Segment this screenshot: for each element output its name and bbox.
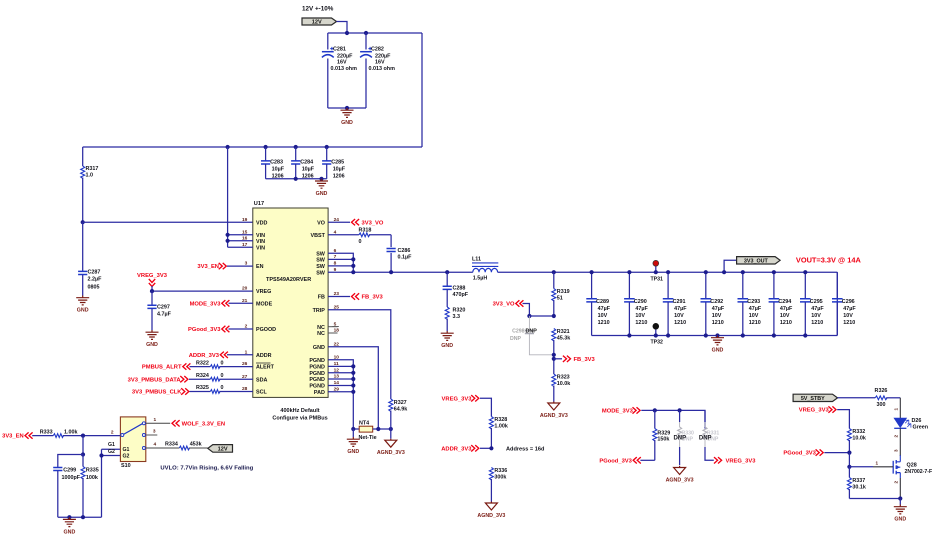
capacitor C281 [322,33,357,108]
node junction VREG/C297 [150,289,154,293]
resistor R335 [81,455,99,518]
net VREG_3V3 above C297 [137,273,168,287]
svg-text:ADDR: ADDR [256,353,272,359]
node junction divider top right [552,314,556,318]
pin 25 TRIP U17 right [313,304,340,314]
svg-text:3V3_PMBUS_DATA: 3V3_PMBUS_DATA [128,377,182,383]
resistor R328 [489,417,508,449]
pin 22 GND U17 right [313,341,339,351]
svg-text:VREG_3V3: VREG_3V3 [442,396,473,402]
svg-text:10.0k: 10.0k [557,381,571,387]
net PGood_3V3 at gate [783,449,823,456]
net 3V3_PMBUS_DATA [128,376,188,383]
svg-text:PAD: PAD [314,390,325,396]
pin 20 VREG U17 left [242,286,271,296]
resistor R322 [190,360,253,368]
svg-text:R320: R320 [453,308,466,314]
svg-text:2: 2 [111,429,114,435]
wire main 12V rail [83,146,422,148]
svg-text:PGOOD: PGOOD [256,327,276,333]
wire NT4 left [353,428,359,430]
ground GND Q28 [894,499,907,523]
svg-text:GND: GND [64,529,76,535]
svg-text:16V: 16V [337,59,347,65]
svg-text:1.0: 1.0 [86,173,94,179]
svg-text:TP31: TP31 [651,276,664,282]
svg-text:19: 19 [242,217,248,223]
capacitor C294 [769,270,793,338]
svg-text:47µF: 47µF [635,306,648,312]
net 3V3_EN at EN pin [197,263,226,270]
svg-text:C282: C282 [371,47,384,53]
svg-text:1210: 1210 [843,320,855,326]
wire NC pin5 stub [328,326,337,328]
svg-text:4: 4 [154,442,157,448]
net MODE_3V3 at R329 [602,407,640,414]
node junction R330 top [678,408,682,412]
wire VREG to R332 [837,410,849,429]
wire PGND bus [328,360,353,429]
svg-text:1000pF: 1000pF [62,475,81,481]
transistor Q28 2N7002-7-F [893,455,932,478]
svg-text:1210: 1210 [749,320,761,326]
svg-text:FB_3V3: FB_3V3 [362,295,384,301]
net PGood_3V3 at PGOOD pin [188,326,229,333]
capacitor C285 [322,147,346,180]
svg-text:10µF: 10µF [272,167,285,173]
svg-text:0: 0 [221,385,224,391]
wire input caps bottom [266,178,327,180]
svg-text:UVLO: 7.7Vin Rising, 6.6V Fall: UVLO: 7.7Vin Rising, 6.6V Falling [160,465,253,471]
svg-text:VIN: VIN [256,245,265,251]
svg-text:PGND: PGND [309,365,325,371]
net 3V3_VO at divider [493,300,524,307]
svg-text:0.1µF: 0.1µF [398,254,413,260]
svg-text:2: 2 [894,435,899,438]
svg-text:DNP: DNP [526,328,538,334]
svg-text:10V: 10V [811,313,821,319]
wire PGND pin y379.0 [328,377,355,381]
wire PGND pin y385.5 [328,383,355,387]
node junction R327-NT4 [389,427,393,431]
svg-text:PGND: PGND [309,377,325,383]
pin 10 PGND U17 right [309,354,339,364]
node junction C284 top [294,145,298,149]
svg-text:R337: R337 [852,478,865,484]
note 400kHz Default [272,408,327,422]
svg-text:470pF: 470pF [453,292,469,298]
note UVLO [160,465,253,471]
resistor R320 [445,307,465,331]
wire output bottom rail [592,335,838,337]
svg-text:10V: 10V [635,313,645,319]
resistor R336 [489,468,507,502]
svg-text:AGND_3V3: AGND_3V3 [477,513,505,519]
node junction C286 bottom [389,270,393,274]
svg-text:12V +-10%: 12V +-10% [302,6,334,13]
svg-text:GND: GND [441,343,453,349]
svg-text:VREG_3V3: VREG_3V3 [137,273,168,279]
svg-text:G2: G2 [123,454,130,460]
ground GND snubber [441,331,454,349]
capacitor C296 [832,272,856,335]
svg-text:1210: 1210 [674,320,686,326]
svg-text:VBST: VBST [311,233,326,239]
net MODE_3V3 at MODE pin [190,300,230,307]
svg-text:400kHz Default: 400kHz Default [280,408,319,414]
svg-text:R321: R321 [557,329,570,335]
svg-text:C283: C283 [270,160,283,166]
pin 6 SW U17 right [316,248,336,257]
svg-text:R327: R327 [394,400,407,406]
svg-text:1: 1 [894,408,899,411]
svg-text:R335: R335 [86,468,99,474]
wire G1G2 riser [101,449,103,517]
test point TP32 [651,323,664,345]
svg-text:0.013 ohm: 0.013 ohm [369,66,396,72]
svg-text:DNP: DNP [699,435,712,441]
resistor R327 [389,399,408,429]
net ADDR_3V3 at ADDR pin [189,352,228,359]
svg-text:R323: R323 [557,375,570,381]
svg-text:2.2µF: 2.2µF [88,277,103,283]
svg-text:WOLF_3.3V_EN: WOLF_3.3V_EN [182,422,226,428]
svg-text:1.00k: 1.00k [64,429,78,435]
pin 23 FB U17 right [318,291,340,301]
resistor R321 [552,329,571,375]
svg-text:3.3: 3.3 [453,314,461,320]
svg-text:G2: G2 [108,449,115,455]
net-tie NT4 [359,421,377,441]
svg-text:47µF: 47µF [780,306,793,312]
node junction R329 top [653,408,657,412]
capacitor C299 [53,467,81,517]
svg-text:R336: R336 [494,468,507,474]
capacitor C288 [443,270,469,307]
svg-text:U17: U17 [254,201,264,207]
svg-text:1210: 1210 [598,320,610,326]
5V_STBY port [793,394,837,402]
node junction SW8 [351,264,355,268]
svg-text:5V_STBY: 5V_STBY [801,396,825,402]
svg-text:300k: 300k [494,475,506,481]
resistor R324 [189,373,253,381]
svg-text:10V: 10V [674,313,684,319]
node junction SW bus [351,270,355,274]
wire top input rail [328,32,422,34]
svg-text:10V: 10V [712,313,722,319]
svg-text:C285: C285 [331,160,344,166]
net FB_3V3 at FB pin [328,293,383,300]
pin 3 EN U17 left [245,261,264,271]
svg-text:47µF: 47µF [843,306,856,312]
pin 9 SW U17 right [316,267,336,277]
wire ADDR pin [227,354,253,356]
svg-text:DNP: DNP [510,336,521,342]
node junction C299 branch [81,452,85,456]
ground GND input ceramics [315,179,328,197]
ground AGND_3V3 divider [540,402,568,420]
node junction FB tap [552,353,556,361]
svg-text:51: 51 [557,296,563,302]
capacitor C292 [701,270,725,338]
svg-text:SW: SW [316,258,326,264]
pin 26 ALERT U17 left [242,361,275,371]
capacitor C297 [147,291,171,330]
ground AGND_3V3 NT4 [377,429,405,456]
svg-text:C292: C292 [710,299,723,305]
wire NT4 right [373,428,391,430]
svg-text:Configure via PMBus: Configure via PMBus [272,416,327,422]
svg-text:10µF: 10µF [302,167,315,173]
node junction C282 top [364,31,368,35]
svg-text:GND: GND [347,449,359,455]
ground GND NT4 [347,429,360,455]
capacitor C295 [800,270,824,338]
wire MODE rail [641,410,705,428]
svg-text:GND: GND [313,345,325,351]
net WOLF_3.3V_EN [172,420,225,427]
pin 4 VBST U17 right [311,229,337,239]
wire C299 branch [58,455,83,468]
note VOUT=3.3V @ 14A [796,255,862,264]
svg-text:SW: SW [316,251,326,257]
svg-text:10V: 10V [598,313,608,319]
node junction gnd tap2 [319,177,323,181]
wire TRIP pin to R327 [328,310,391,399]
pin 24 VO U17 right [317,217,339,227]
pin 28 SCL U17 left [242,386,268,396]
wire G2 pin [99,449,120,458]
svg-text:C287: C287 [88,270,101,276]
svg-text:R334: R334 [165,442,178,448]
resistor R323 [552,374,571,402]
svg-text:3V3_OUT: 3V3_OUT [744,258,769,264]
svg-text:300: 300 [877,402,886,408]
svg-text:R319: R319 [557,289,570,295]
pin 29 PAD U17 right [314,386,339,396]
ground AGND_3V3 R336 [477,502,505,520]
net PGood_3V3 at R329 [599,457,654,464]
svg-text:FB_3V3: FB_3V3 [574,357,596,363]
ground GND C297 [146,330,159,348]
wire ADDR to node [480,446,494,450]
svg-text:GND: GND [341,120,353,126]
svg-text:0805: 0805 [88,285,100,291]
svg-text:3V3_VO: 3V3_VO [493,302,515,308]
node junction GND22-NT4 [376,427,380,431]
svg-text:R332: R332 [852,429,865,435]
wire PGND pin y366.4 [328,364,355,368]
wire GND pin22 [328,347,378,429]
svg-text:10V: 10V [749,313,759,319]
svg-text:1.00k: 1.00k [494,424,508,430]
wire 3V3_OUT tap [722,260,737,274]
svg-text:C295: C295 [810,299,823,305]
svg-text:1210: 1210 [811,320,823,326]
capacitor C283 [261,147,285,180]
node junction gnd tap [345,106,349,110]
svg-text:3: 3 [894,449,899,452]
wire VREG to R328 [480,398,491,416]
svg-text:0: 0 [359,239,362,245]
node junction C283 top [264,145,268,149]
svg-text:VDD: VDD [256,220,267,226]
net PMBUS_ALRT [142,363,191,370]
wire VDD feed [83,221,253,223]
svg-text:TPS549A20RVER: TPS549A20RVER [266,277,311,283]
resistor R332 [847,429,866,453]
wire EN pin [227,265,253,267]
svg-text:PMBUS_ALRT: PMBUS_ALRT [142,365,182,371]
pin 3 S10 stub [146,429,158,435]
svg-text:D26: D26 [912,418,922,424]
svg-text:C299: C299 [63,468,76,474]
svg-text:2: 2 [894,481,899,484]
ground GND C287 [76,296,89,314]
resistor R317 [81,147,99,222]
wire divider node link [529,315,553,317]
svg-text:3V3_EN: 3V3_EN [197,264,219,270]
svg-text:0: 0 [221,360,224,366]
svg-text:47µF: 47µF [811,306,824,312]
svg-text:0.013 ohm: 0.013 ohm [331,66,358,72]
node junction VDD branch [81,220,85,224]
note Address = 16d [506,446,545,452]
svg-text:1210: 1210 [712,320,724,326]
svg-text:PGND: PGND [309,371,325,377]
ground GND input caps [341,108,354,126]
net ADDR_3V3 at divider [441,445,479,452]
pin 7 SW U17 right [316,254,336,264]
svg-text:1: 1 [875,461,878,466]
wire bottom gnd rail [58,516,102,518]
svg-text:AGND_3V3: AGND_3V3 [666,478,694,484]
svg-text:EN: EN [256,264,264,270]
wire VIN pin17 [228,246,253,248]
resistor R326 [838,388,901,408]
pin 5 NC U17 right [317,321,336,331]
svg-text:PGood_3V3: PGood_3V3 [188,327,221,333]
capacitor C291 [663,270,687,338]
svg-text:PGND: PGND [309,384,325,390]
wire MODE pin [229,302,253,304]
svg-text:Net-Tie: Net-Tie [359,435,377,441]
svg-text:TRIP: TRIP [313,308,326,314]
svg-text:150k: 150k [657,436,669,442]
pin 13 PGND U17 right [309,374,339,384]
svg-text:1206: 1206 [333,174,345,180]
node junction VIN16 [226,239,230,243]
svg-text:SW: SW [316,270,326,276]
ground AGND_3V3 R330 [666,466,694,484]
pin 1 ADDR U17 left [245,349,272,359]
svg-text:1210: 1210 [635,320,647,326]
net VREG_3V3 at R331 [714,457,756,464]
net 3V3_VO at VO pin [352,219,384,226]
pin 2 PGOOD U17 left [245,324,277,334]
wire gate node [847,453,893,469]
ground GND switch [63,517,76,535]
svg-text:MODE_3V3: MODE_3V3 [190,301,222,307]
svg-text:Q28: Q28 [907,462,917,468]
svg-text:C281: C281 [333,47,346,53]
wire SW pin6 [328,253,353,272]
svg-text:C289: C289 [596,299,609,305]
node junction VIN15 [226,233,230,237]
svg-text:TP32: TP32 [651,339,664,345]
pin 16 VIN U17 left [242,235,265,245]
wire VIN pin15 [228,234,253,236]
pin 27 SDA U17 left [242,374,268,384]
svg-text:SW: SW [316,264,326,270]
svg-text:ADDR_3V3: ADDR_3V3 [441,446,472,452]
wire 12V port to rail [337,22,348,34]
wire 3V3_VO to divider node [523,304,530,317]
3V3_OUT port [737,257,781,265]
wire G1 pin [102,442,121,449]
svg-text:R328: R328 [494,417,507,423]
svg-text:10.0k: 10.0k [852,436,866,442]
node junction gnd stem [67,515,71,519]
svg-text:S10: S10 [121,463,131,469]
svg-text:NT4: NT4 [359,421,369,427]
wire PGND pin y372.8 [328,371,355,375]
pin 12 PGND U17 right [309,367,339,377]
wire 12V feed down right [421,33,423,147]
svg-text:NC: NC [317,331,325,337]
svg-text:R333: R333 [40,429,53,435]
svg-text:PGood_3V3: PGood_3V3 [599,458,632,464]
pin 18 NC U17 right [317,327,339,338]
resistor R319 [552,270,570,316]
wire PGND pin y391.8 [328,390,355,394]
wire VIN feed down [227,147,229,247]
net VREG_3V3 at R328 [442,395,479,402]
svg-text:GND: GND [712,348,724,354]
svg-text:GND: GND [894,517,906,523]
resistor R325 [190,385,253,393]
svg-text:R329: R329 [657,430,670,436]
svg-text:10V: 10V [843,313,853,319]
wire output right edge [836,272,838,335]
svg-text:R324: R324 [196,373,209,379]
ground GND output caps [711,333,724,353]
net VREG_3V3 at R332 [799,406,836,413]
svg-text:VREG_3V3: VREG_3V3 [726,458,757,464]
inductor L11 [472,256,498,281]
pin 11 PGND U17 right [309,361,339,371]
svg-text:NC: NC [317,325,325,331]
capacitor C298 DNP [510,316,554,355]
wire source to gnd rail [849,478,902,501]
svg-text:C298: C298 [512,328,525,334]
svg-text:3V3_PMBUS_CLK: 3V3_PMBUS_CLK [132,390,182,396]
resistor R337 [847,467,866,499]
node junction C284 bottom [294,177,298,181]
svg-text:47µF: 47µF [598,306,611,312]
svg-text:GND: GND [77,308,89,314]
node junction SW7 [351,257,355,261]
svg-text:3V3_EN: 3V3_EN [2,434,24,440]
pin 15 VIN U17 left [242,229,265,239]
op-amp U17 TPS549A20RVER body [253,201,328,398]
resistor R329 [653,410,670,460]
svg-text:C288: C288 [453,286,466,292]
svg-text:C284: C284 [300,160,313,166]
svg-text:C291: C291 [673,299,686,305]
12V +-10% note [302,6,334,13]
